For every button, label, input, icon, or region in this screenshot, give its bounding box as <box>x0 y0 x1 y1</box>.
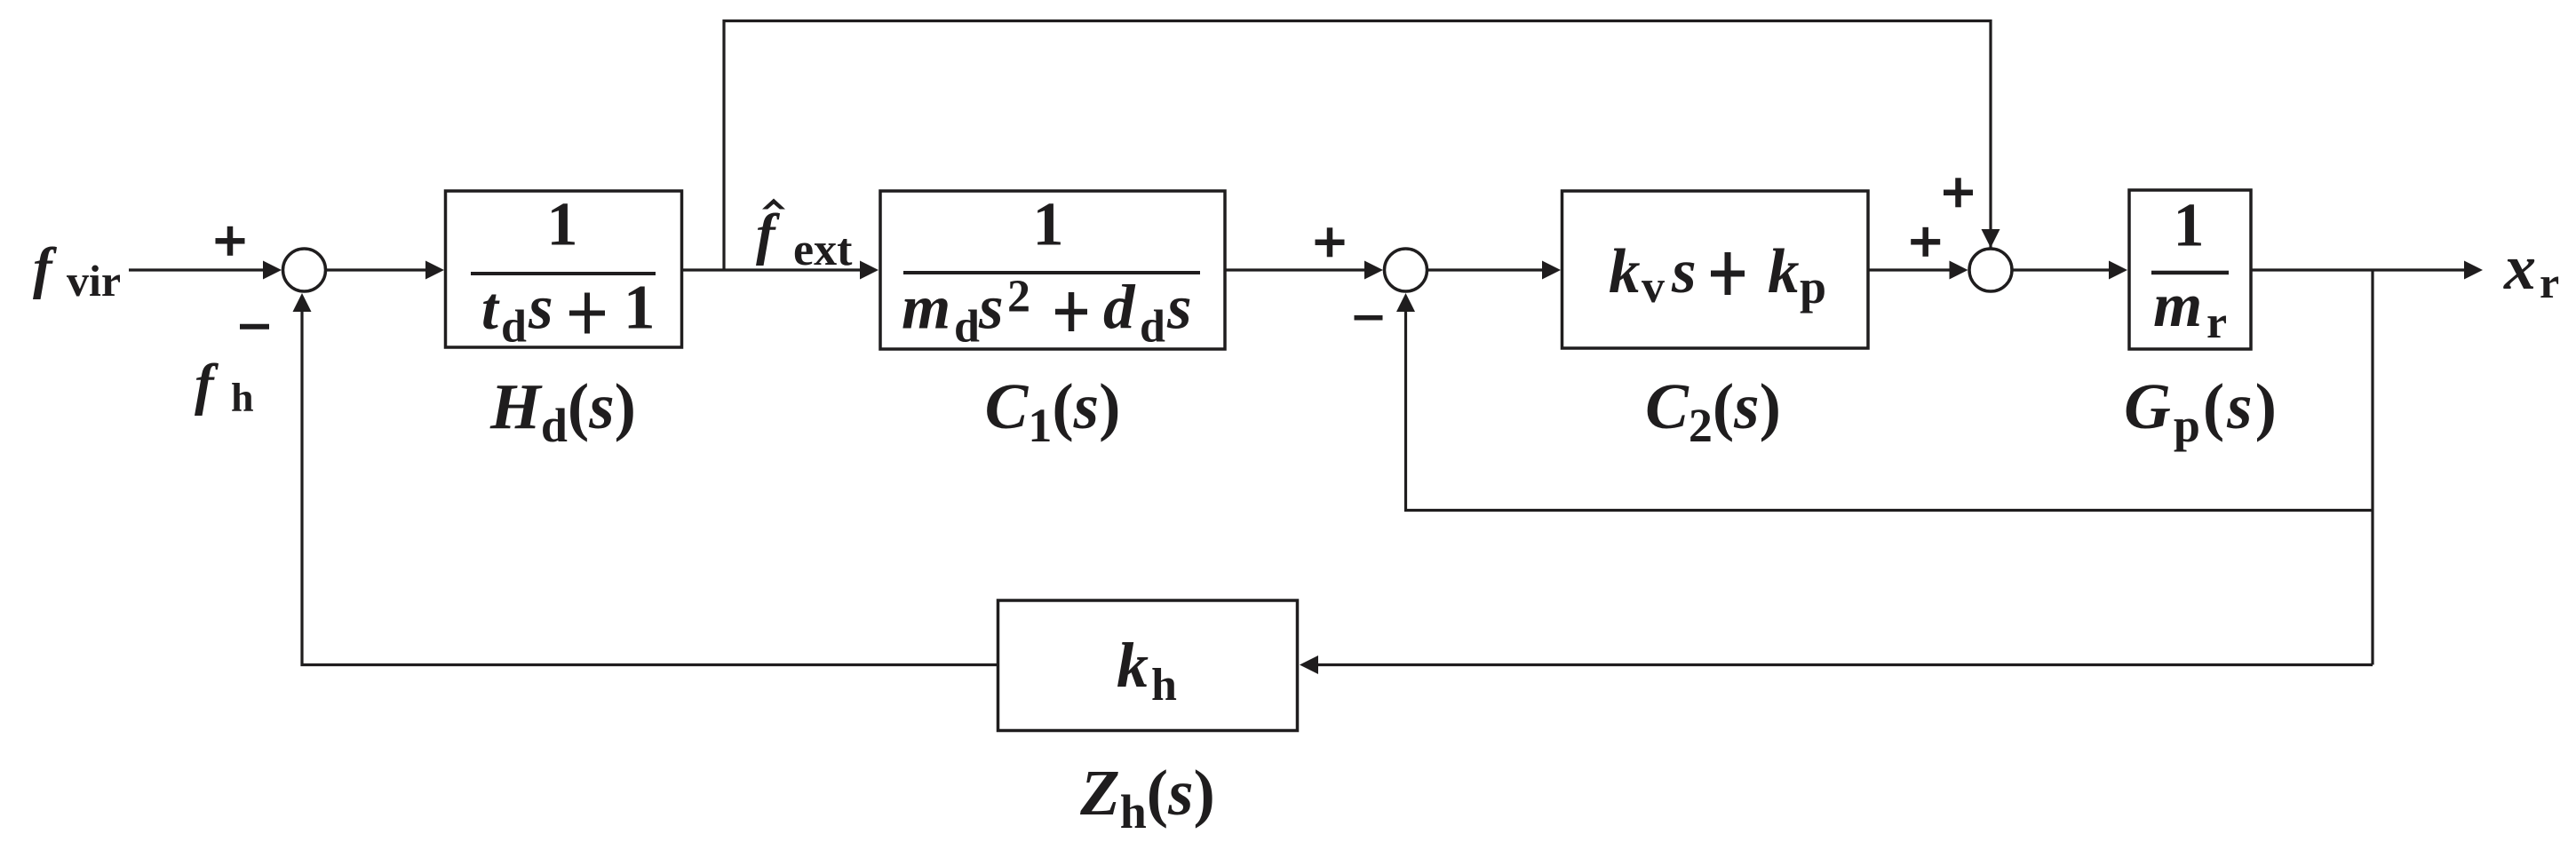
svg-text:v: v <box>1642 262 1665 313</box>
svg-text:f: f <box>195 353 219 417</box>
svg-text:p: p <box>1800 260 1826 314</box>
svg-text:h: h <box>231 375 254 420</box>
summing junction S3 <box>1969 249 2012 291</box>
svg-text:f: f <box>33 236 58 300</box>
sign: plus at S2 input <box>1316 240 1345 246</box>
sign: plus at S3 left input <box>1911 239 1940 245</box>
wire: bottom feedback from output branch to block kh <box>1316 663 2373 666</box>
svg-text:d: d <box>1140 302 1165 353</box>
svg-text:1: 1 <box>1033 191 1064 259</box>
svg-text:1: 1 <box>547 191 578 259</box>
wire: C2 to summing junction S3 <box>1868 268 1952 271</box>
block Gp fraction bar <box>2151 271 2229 275</box>
svg-text:k: k <box>1609 237 1641 306</box>
arrowhead: into S2 <box>1364 261 1383 280</box>
wire: f_vir input to summing junction S1 <box>129 268 266 271</box>
sign: plus at S3 top input <box>1944 190 1973 196</box>
block Gp 1/mr <box>2129 190 2251 349</box>
wire: middle feedback from output branch to S2 <box>1406 309 2373 511</box>
arrowhead: into block Hd <box>425 261 444 280</box>
wire: Hd to block C1 (through node f_ext) <box>682 268 863 271</box>
svg-text:1: 1 <box>2174 192 2205 260</box>
hat of f_ext <box>762 199 785 210</box>
wire: C1 to summing junction S2 <box>1225 268 1367 271</box>
svg-text:k: k <box>1768 237 1800 306</box>
block Hd fraction bar <box>471 272 656 275</box>
svg-text:r: r <box>2540 258 2559 307</box>
wire: S3 to block Gp <box>2012 268 2112 271</box>
svg-text:Zh(s): Zh(s) <box>1079 757 1215 838</box>
arrowhead: into S3 from top <box>1982 229 2000 248</box>
svg-text:h: h <box>1151 660 1177 711</box>
block C1 1/(md s^2 + dd s) <box>880 191 1225 349</box>
summing junction S1 <box>283 249 326 291</box>
sign: minus at S2 lower input <box>1355 315 1383 321</box>
svg-text:Gp(s): Gp(s) <box>2124 370 2279 452</box>
arrowhead: into S1 from below <box>293 293 312 312</box>
svg-text:C1(s): C1(s) <box>985 370 1121 452</box>
svg-text:m: m <box>2153 271 2202 340</box>
arrowhead: output x_r <box>2464 261 2483 280</box>
arrowhead: into S3 from left <box>1950 261 1968 280</box>
svg-text:k: k <box>1117 630 1149 701</box>
svg-text:f: f <box>756 203 781 266</box>
wire: output branch down from x_r line <box>2371 270 2373 665</box>
svg-text:s: s <box>978 274 1004 343</box>
svg-text:d: d <box>501 302 527 353</box>
block Hd 1/(td s + 1) <box>446 191 682 347</box>
svg-text:s: s <box>1166 274 1192 343</box>
arrowhead: into block C2 <box>1542 261 1561 280</box>
block C2 kv s + kp <box>1562 191 1869 348</box>
svg-text:d: d <box>1103 274 1136 343</box>
svg-text:Hd(s): Hd(s) <box>489 370 636 452</box>
wire: S1 to block Hd <box>326 268 429 271</box>
wire: S2 to block C2 <box>1427 268 1546 271</box>
wire: top branch line from node f_ext to summing junction S3 <box>724 21 1991 271</box>
block C1 fraction bar <box>903 271 1200 274</box>
arrowhead: into S1 <box>263 261 282 280</box>
svg-text:s: s <box>1671 237 1697 306</box>
svg-text:C2(s): C2(s) <box>1645 370 1781 452</box>
svg-text:vir: vir <box>67 256 121 306</box>
svg-text:t: t <box>481 274 500 342</box>
arrowhead: into block Gp <box>2109 261 2127 280</box>
wire: Gp to output x_r <box>2251 268 2467 271</box>
sign: plus at S1 input <box>216 238 245 244</box>
svg-text:m: m <box>902 274 950 343</box>
svg-text:d: d <box>954 302 980 353</box>
svg-text:s: s <box>528 274 553 343</box>
svg-text:1: 1 <box>624 274 656 343</box>
sign: minus at S1 lower input <box>240 324 269 330</box>
summing junction S2 <box>1385 249 1427 291</box>
arrowhead: into S2 from below <box>1396 293 1415 312</box>
arrowhead: into block C1 <box>860 261 879 280</box>
svg-text:x: x <box>2503 232 2536 303</box>
block kh <box>998 600 1298 731</box>
wire: kh output to S1 <box>302 309 998 665</box>
arrowhead: into block kh <box>1300 655 1318 674</box>
svg-text:r: r <box>2206 298 2227 348</box>
svg-text:2: 2 <box>1007 272 1030 322</box>
svg-text:ext: ext <box>793 225 853 275</box>
